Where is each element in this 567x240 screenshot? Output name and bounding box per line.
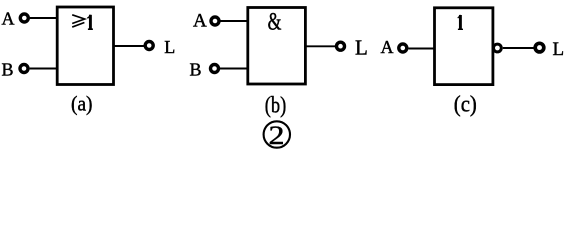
svg-text:2: 2 <box>269 121 285 150</box>
svg-text:(b): (b) <box>265 93 287 118</box>
svg-text:A: A <box>381 37 394 57</box>
svg-text:A: A <box>2 9 15 29</box>
svg-text:L: L <box>553 39 565 60</box>
svg-text:(a): (a) <box>71 91 93 115</box>
svg-text:(c): (c) <box>454 91 477 116</box>
svg-text:&: & <box>268 9 282 36</box>
svg-text:B: B <box>2 60 14 80</box>
svg-text:L: L <box>164 37 175 57</box>
svg-text:B: B <box>190 60 202 80</box>
svg-text:L: L <box>355 36 368 60</box>
svg-text:A: A <box>193 11 207 32</box>
